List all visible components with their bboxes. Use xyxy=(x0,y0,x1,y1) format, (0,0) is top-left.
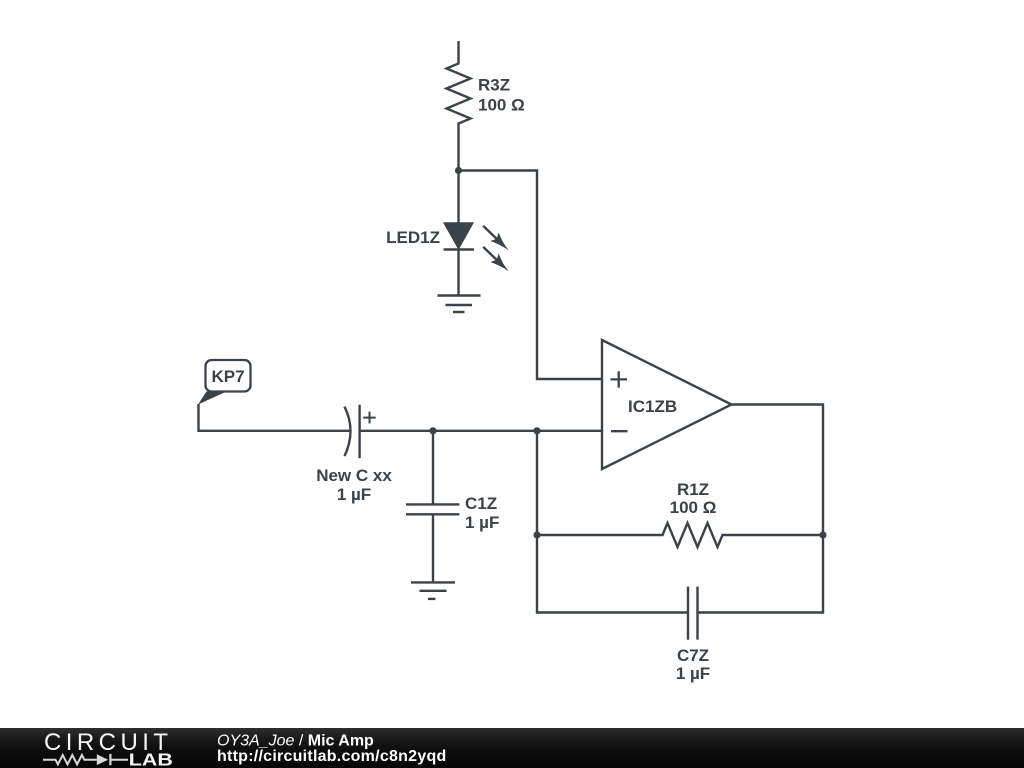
svg-text:LED1Z: LED1Z xyxy=(386,228,440,247)
label IC1ZB xyxy=(628,397,677,416)
capacitor C1Z xyxy=(406,431,459,583)
node junction dot B xyxy=(429,427,436,434)
ground below LED1Z xyxy=(438,296,481,313)
label New C xx 1 µF xyxy=(316,466,392,504)
svg-text:1 µF: 1 µF xyxy=(465,513,499,532)
svg-text:R3Z: R3Z xyxy=(478,76,510,95)
LED LED1Z xyxy=(444,224,510,296)
svg-text:OY3A_Joe / Mic Amp: OY3A_Joe / Mic Amp xyxy=(217,733,374,750)
CircuitLab logo text CIRCUIT xyxy=(44,729,168,756)
capacitor New C xx (polarized) xyxy=(345,405,376,459)
wire junction to LED xyxy=(457,171,459,224)
node junction dot D xyxy=(819,531,826,538)
label R3Z 100 Ω xyxy=(478,76,525,115)
op-amp IC1ZB xyxy=(602,340,732,469)
CircuitLab logo text LAB xyxy=(129,750,173,768)
wire node C to opamp minus xyxy=(537,430,602,432)
capacitor C7Z xyxy=(688,587,698,640)
svg-text:1 µF: 1 µF xyxy=(676,664,710,683)
resistor R1Z xyxy=(537,523,823,547)
svg-text:R1Z: R1Z xyxy=(677,480,709,499)
svg-text:1 µF: 1 µF xyxy=(337,485,371,504)
node flag KP7 xyxy=(198,360,251,405)
node junction dot at R3Z/LED xyxy=(455,167,462,174)
svg-text:C1Z: C1Z xyxy=(465,494,497,513)
footer watermark bar xyxy=(0,728,1024,768)
resistor R3Z xyxy=(447,41,471,171)
wire output down to C7Z xyxy=(698,535,824,613)
svg-text:IC1ZB: IC1ZB xyxy=(628,397,677,416)
ground below C1Z xyxy=(411,582,455,599)
wire minus node down xyxy=(537,431,688,613)
svg-text:New C xx: New C xx xyxy=(316,466,392,485)
wire junction to opamp plus xyxy=(459,171,603,380)
node junction dot C xyxy=(533,427,540,434)
svg-text:http://circuitlab.com/c8n2yqd: http://circuitlab.com/c8n2yqd xyxy=(217,748,447,765)
wire KP7 to main node xyxy=(199,404,351,431)
svg-text:LAB: LAB xyxy=(129,750,173,768)
svg-text:KP7: KP7 xyxy=(211,367,244,386)
label C1Z 1 µF xyxy=(465,494,499,532)
node junction dot E xyxy=(533,531,540,538)
wire node B to node C xyxy=(433,430,537,432)
svg-text:C7Z: C7Z xyxy=(677,646,709,665)
footer title text xyxy=(217,733,447,766)
label C7Z 1 µF xyxy=(676,646,710,683)
svg-text:100 Ω: 100 Ω xyxy=(670,498,717,517)
wire opamp output xyxy=(732,405,824,536)
wire cap to node B xyxy=(360,430,433,432)
CircuitLab logo resistor-diode glyph xyxy=(43,754,128,765)
svg-text:100 Ω: 100 Ω xyxy=(478,96,525,115)
label KP7 xyxy=(211,367,244,386)
label R1Z 100 Ω xyxy=(670,480,717,517)
label LED1Z xyxy=(386,228,440,247)
